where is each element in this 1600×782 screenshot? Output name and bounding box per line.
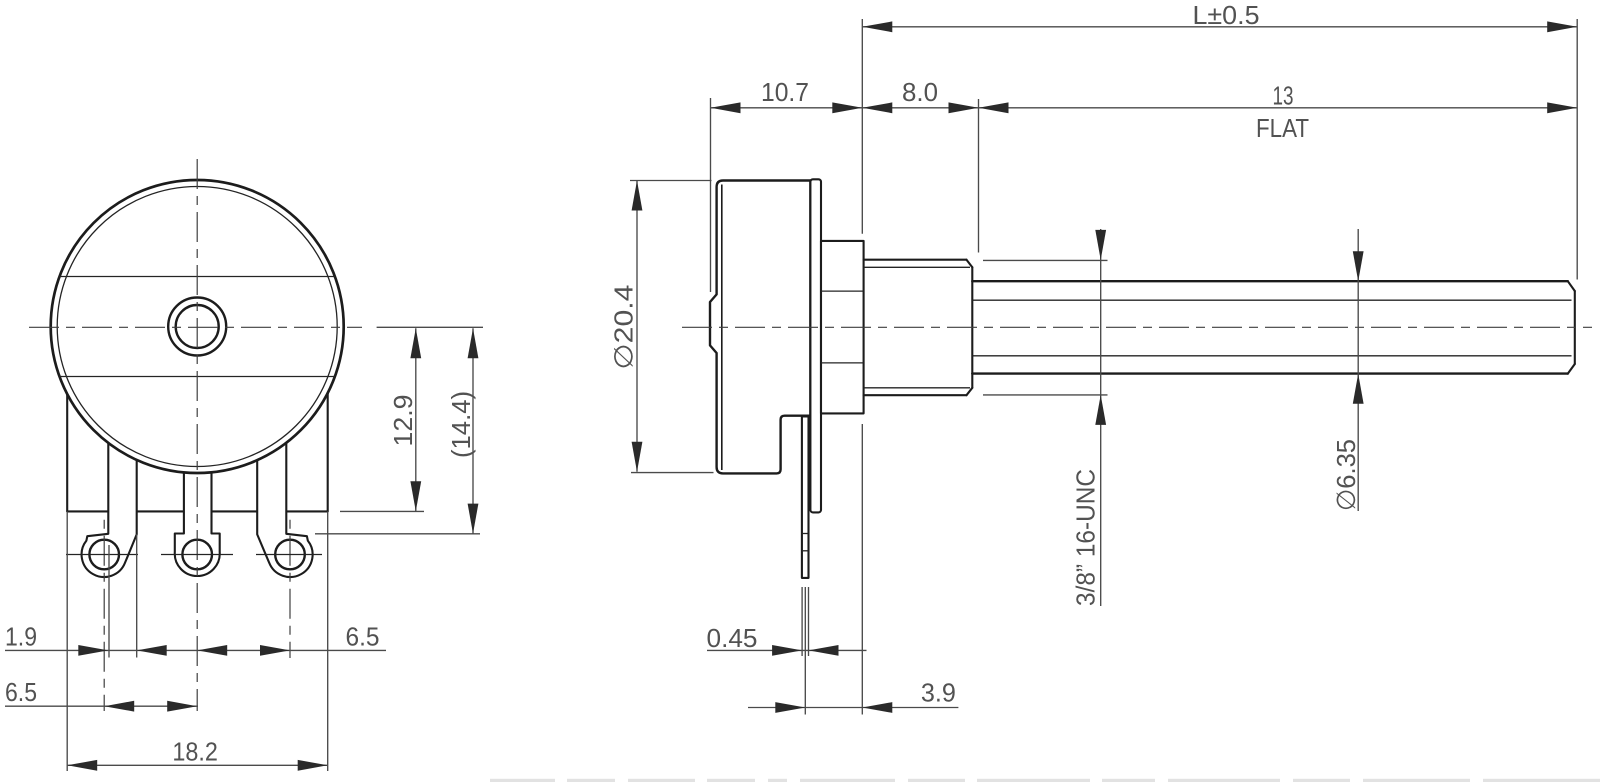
shaft	[972, 281, 1575, 373]
svg-text:6.5: 6.5	[5, 677, 37, 707]
dimension 3/8 16-UNC	[983, 229, 1108, 606]
side view body outline	[710, 181, 810, 474]
svg-text:(14.4): (14.4)	[446, 391, 476, 458]
hex corner line upper	[821, 290, 864, 292]
extension lines for 1.9	[109, 534, 137, 657]
faint cropped text row at bottom edge	[490, 779, 1600, 782]
lug 1 vertical centerline	[103, 520, 105, 711]
dimension 12.9	[340, 328, 424, 511]
dimension (14.4)	[315, 328, 480, 534]
lug hole 2	[182, 540, 212, 570]
hex corner line lower	[821, 362, 864, 364]
hex bushing base	[821, 241, 864, 414]
extension line shaft end	[1576, 19, 1578, 280]
extension line mounting face	[861, 19, 863, 715]
extension line body front face	[710, 98, 712, 292]
threaded bushing	[864, 260, 973, 396]
dimension left 6.5	[5, 677, 198, 712]
hub inner circle	[176, 305, 219, 348]
svg-text:∅6.35: ∅6.35	[1331, 439, 1361, 511]
terminal lug 3 (right)	[257, 428, 312, 577]
terminal lug 2 (middle)	[175, 428, 220, 576]
svg-text:3/8” 16-UNC: 3/8” 16-UNC	[1071, 469, 1101, 606]
svg-text:10.7: 10.7	[761, 77, 809, 107]
extension line bracket right	[327, 511, 329, 771]
lower chord line	[59, 376, 335, 378]
svg-text:0.45: 0.45	[707, 623, 758, 653]
terminal lug 1 (left)	[82, 428, 137, 577]
extension line bracket left	[66, 511, 68, 771]
side view centerline	[682, 326, 1592, 328]
svg-text:12.9: 12.9	[388, 395, 418, 447]
front view mounting bracket	[67, 385, 328, 511]
svg-text:18.2: 18.2	[172, 737, 218, 767]
dimension L plus-minus 0.5	[862, 0, 1577, 32]
lug 3 vertical centerline	[289, 520, 291, 658]
lug horizontal centerlines	[66, 554, 322, 556]
dimension 20.4 diameter	[609, 181, 714, 473]
svg-text:8.0: 8.0	[902, 77, 938, 107]
svg-text:1.9: 1.9	[5, 622, 37, 652]
svg-text:∅20.4: ∅20.4	[609, 285, 639, 370]
dimension chain 10.7 / 8.0 / 13 FLAT	[711, 77, 1578, 143]
svg-text:6.5: 6.5	[346, 622, 380, 652]
hub outer circle	[168, 298, 226, 356]
lug hole 1	[89, 540, 119, 570]
front horizontal centerline	[29, 326, 362, 328]
svg-text:L±0.5: L±0.5	[1193, 0, 1260, 30]
side terminal strip	[802, 417, 809, 578]
side body inner cover line	[721, 185, 723, 471]
extension lines for 0.45	[802, 587, 808, 715]
dimension 1.9 and right 6.5	[5, 622, 386, 656]
dimension 6.35 diameter	[1331, 229, 1364, 511]
extension line bushing end	[978, 99, 980, 253]
svg-text:FLAT: FLAT	[1256, 113, 1309, 143]
svg-text:13: 13	[1273, 81, 1294, 111]
front view body outer circle	[51, 180, 344, 473]
front vertical centerline	[196, 159, 198, 711]
terminal plate (side)	[810, 179, 821, 512]
svg-text:3.9: 3.9	[921, 678, 956, 708]
dimension 3.9	[748, 678, 958, 713]
dimension 18.2	[67, 737, 328, 771]
upper chord line	[59, 276, 335, 278]
front view body inner circle	[57, 187, 337, 467]
dimension 0.45	[707, 623, 867, 656]
lug hole 3	[275, 540, 305, 570]
